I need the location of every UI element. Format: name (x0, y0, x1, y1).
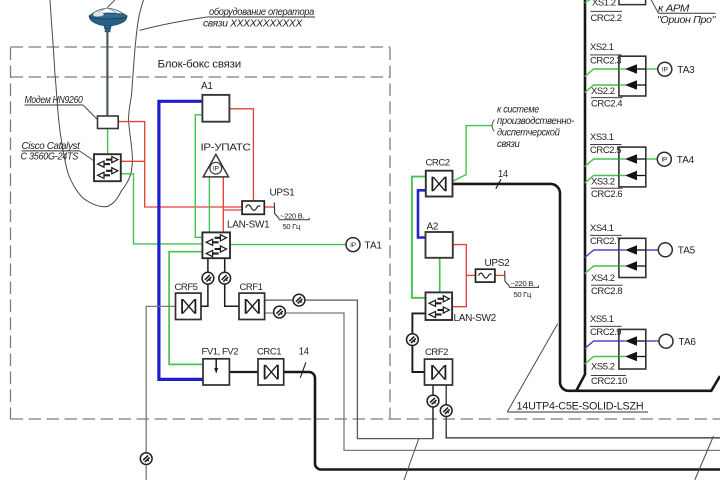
svg-text:LAN-SW2: LAN-SW2 (454, 313, 497, 324)
svg-text:IP: IP (662, 66, 669, 73)
wire black CRF2 bottom right (446, 385, 720, 438)
connector box XS2 (619, 56, 646, 96)
label CRC2.8 (591, 284, 623, 286)
wire gray CRF1 lower output (265, 313, 720, 450)
switch LAN-SW1 (202, 232, 230, 258)
wire XS2.2 breakout (585, 85, 625, 93)
svg-text:UPS1: UPS1 (270, 187, 296, 198)
wire to ТА6 (646, 340, 659, 342)
joint on CRF2 left wire (427, 395, 439, 407)
wire green cisco to LAN-SW1 (121, 174, 203, 244)
wire red A1 to UPS1 top (229, 109, 253, 201)
pin stub lower (637, 356, 646, 358)
wire green IP-PBX to LAN-SW1 (208, 177, 210, 233)
node ТА4 circle (657, 152, 671, 166)
pin stub upper (637, 68, 646, 70)
triangle contact upper (625, 336, 637, 346)
svg-text:XS5.2: XS5.2 (591, 362, 615, 373)
svg-text:XS4.2: XS4.2 (591, 273, 615, 284)
svg-text:XS2.2: XS2.2 (591, 86, 615, 97)
svg-text:CRF1: CRF1 (240, 282, 263, 293)
box CRC2 (426, 171, 453, 197)
leader to operator label (140, 17, 209, 31)
wire XS4.1 breakout (585, 250, 625, 258)
wire XS3.2 breakout (585, 176, 625, 184)
antenna mast (106, 29, 108, 116)
svg-text:CRC2.10: CRC2.10 (591, 376, 627, 387)
cable 14 CRC1 thick run (284, 372, 720, 470)
connector XS1.2 partial box (619, 0, 646, 5)
pin stub upper (637, 158, 646, 160)
block-box right dashed line (389, 48, 391, 420)
wire XS5.1 breakout (585, 341, 625, 349)
wire to ТА3 (646, 68, 658, 70)
svg-text:A2: A2 (427, 222, 439, 233)
svg-text:ТА6: ТА6 (679, 337, 697, 348)
svg-text:ТА5: ТА5 (678, 246, 696, 257)
node ТА3 circle (658, 62, 672, 76)
power drop symbol at UPS2 (505, 271, 510, 287)
joint on LAN-SW2 wire (407, 334, 419, 346)
triangle contact lower (625, 80, 637, 90)
label CRC2.3 (590, 54, 622, 56)
cable bundle vertical line (576, 0, 585, 391)
svg-text:XS4.1: XS4.1 (590, 223, 614, 234)
leader diagonal bottom right (695, 436, 714, 480)
svg-text:CRC2.2: CRC2.2 (591, 13, 622, 24)
label CRC2.6 (591, 187, 623, 189)
bottom dashed line (11, 418, 720, 420)
slash on CRC2 cable (496, 179, 501, 189)
operator equipment balloon outline (50, 0, 144, 207)
box A1 (202, 95, 229, 122)
triangle contact lower (625, 352, 637, 362)
svg-text:CRF5: CRF5 (175, 282, 198, 293)
wire red UPS1 output (264, 206, 274, 208)
triangle contact upper (625, 64, 637, 74)
wire XS2.1 breakout (585, 69, 625, 77)
connector box XS5 (619, 329, 646, 369)
wire to ТА5 (646, 249, 659, 251)
leader to cable label 14UTP4 (507, 324, 557, 412)
leader diagonal under CRF runs (404, 439, 419, 480)
switch LAN-SW2 (426, 292, 453, 320)
wire black LAN-SW1 to CRF5 (201, 258, 208, 306)
svg-text:связи: связи (497, 139, 520, 150)
svg-text:XS5.1: XS5.1 (590, 314, 614, 325)
block-box top dashed line (11, 76, 391, 78)
svg-text:к АРМ: к АРМ (658, 3, 690, 14)
svg-text:связи ХХХХХХХХХХХ: связи ХХХХХХХХХХХ (203, 19, 303, 30)
wire green CRC2 to LAN-SW2 (412, 177, 426, 298)
wire green A1 to LAN-SW1 (195, 115, 202, 238)
label CRC2.4 (591, 97, 623, 99)
wire green CRC2 to dispatcher system (453, 126, 493, 182)
svg-text:CRC2.8: CRC2.8 (591, 286, 622, 297)
site boundary top dashed line (11, 46, 391, 48)
cable 14 CRC2 thick run (453, 184, 720, 391)
svg-text:к системе: к системе (497, 105, 540, 116)
wire black LAN-SW1 to CRF1 (225, 258, 239, 306)
svg-text:XS3.2: XS3.2 (591, 177, 615, 188)
block-box left dashed line (10, 48, 12, 420)
svg-text:ТА1: ТА1 (365, 240, 383, 251)
joint on LAN-SW1 right down wire (219, 272, 231, 284)
wire gray CRF5 to cable entry (146, 306, 175, 480)
wire XS3.1 breakout (585, 159, 625, 167)
joint on CRF5 cable (140, 453, 152, 465)
switch Cisco Catalyst (94, 154, 121, 181)
label к системе производственно-диспетчерской связи (497, 105, 575, 151)
wire green LAN-SW1 to FV1 (169, 252, 203, 365)
svg-text:XS1.2: XS1.2 (592, 0, 616, 9)
filter CRF2 (425, 359, 453, 385)
triangle contact lower (625, 171, 637, 181)
wire XS4.2 breakout (585, 266, 625, 274)
svg-text:CRC2.4: CRC2.4 (591, 98, 622, 109)
joint on CRF2 right wire (440, 405, 452, 417)
power drop symbol at UPS1 (274, 202, 279, 218)
arrester FV1 FV2 box (203, 359, 229, 385)
svg-text:производственно-: производственно- (497, 116, 575, 127)
wire black FV1 to CRC1 (229, 371, 258, 373)
UPS2 box (476, 269, 495, 282)
connector box XS4 (619, 238, 646, 277)
label CRC2.5 (590, 143, 622, 145)
svg-text:"Орион Про": "Орион Про" (657, 15, 716, 26)
modem leader (83, 105, 98, 120)
svg-text:CRC2.5: CRC2.5 (590, 145, 621, 156)
triangle contact lower (625, 261, 637, 271)
label CRC2.10 (591, 374, 626, 376)
op-amp IP-PBX triangle (203, 154, 228, 177)
wire red branch to UPS1 (223, 209, 242, 211)
svg-text:~220 В.: ~220 В. (511, 279, 535, 288)
svg-text:UPS2: UPS2 (485, 258, 511, 269)
triangle contact upper (625, 154, 637, 164)
svg-text:FV1, FV2: FV1, FV2 (202, 346, 239, 357)
svg-text:Блок-бокс связи: Блок-бокс связи (158, 59, 242, 71)
label CRC2.7 (590, 234, 622, 236)
svg-text:CRC2.7: CRC2.7 (590, 236, 621, 247)
filter CRF5 (176, 293, 202, 319)
brace at dispatcher label (492, 120, 494, 132)
wire black CRF2 bottom left (432, 385, 434, 439)
svg-text:ТА3: ТА3 (677, 65, 695, 76)
svg-text:A1: A1 (201, 81, 213, 92)
triangle contact upper (625, 245, 637, 255)
pin stub lower (637, 265, 646, 267)
wire green A2 to LAN-SW2 (439, 258, 441, 293)
wire blue A1 to FV1 (159, 101, 203, 379)
svg-text:С 3560G-24TS: С 3560G-24TS (21, 152, 79, 163)
UPS1 box (242, 201, 264, 214)
wire XS5.2 breakout (585, 357, 625, 365)
wire red modem to UPS1 (118, 122, 242, 207)
wire blue CRC2 to A2 (418, 190, 426, 237)
joint on CRF1 lower output (274, 306, 286, 318)
svg-text:50 Гц: 50 Гц (514, 290, 532, 299)
wire red branch to UPS2 (466, 274, 475, 276)
wire red IP-PBX to LAN-SW1 (222, 177, 224, 233)
wire red UPS2 output (495, 274, 505, 276)
pin stub lower (637, 84, 646, 86)
svg-text:XS3.1: XS3.1 (590, 132, 614, 143)
svg-text:IP-УПАТС: IP-УПАТС (201, 143, 251, 154)
svg-text:IP: IP (350, 242, 357, 249)
wire gray CRF1 upper output (265, 300, 433, 439)
svg-text:14: 14 (299, 347, 309, 358)
connector box XS3 (619, 147, 646, 187)
wire red cisco branch (121, 160, 145, 162)
box A2 (426, 232, 453, 258)
svg-text:ТА4: ТА4 (677, 155, 695, 166)
svg-text:CRF2: CRF2 (425, 347, 448, 358)
label CRC2.2 (591, 11, 623, 23)
boundary dashed lines (11, 47, 720, 419)
svg-text:CRC1: CRC1 (257, 346, 281, 357)
joint on CRF1 upper output (293, 294, 305, 306)
filter CRF1 (239, 293, 265, 319)
svg-text:CRC2.3: CRC2.3 (590, 55, 621, 66)
svg-text:XS2.1: XS2.1 (590, 42, 614, 53)
label CRC2.9 (590, 325, 622, 327)
pin stub upper (637, 249, 646, 251)
svg-text:CRC2.9: CRC2.9 (590, 327, 621, 338)
node ТА5 circle (658, 243, 672, 257)
svg-text:IP: IP (213, 165, 220, 172)
wire green LAN-SW1 to TA1 (230, 244, 346, 246)
wire green modem to cisco (107, 129, 109, 154)
wire to ТА4 (646, 158, 658, 160)
satellite dish antenna (89, 8, 127, 32)
svg-text:диспетчерской: диспетчерской (497, 128, 560, 139)
cisco leader (80, 151, 95, 161)
box CRC1 (258, 359, 284, 385)
joint on LAN-SW1 left down wire (202, 272, 214, 284)
slash on CRC1 cable (300, 362, 306, 377)
wire red A2 to LAN-SW2 (452, 245, 466, 307)
svg-text:CRC2: CRC2 (426, 158, 450, 169)
svg-text:IP: IP (661, 156, 668, 163)
svg-text:14: 14 (498, 169, 508, 180)
svg-text:50 Гц: 50 Гц (283, 222, 301, 231)
pin stub lower (637, 175, 646, 177)
leader к АРМ (651, 0, 658, 13)
leader above satellite dish (107, 0, 115, 8)
node TA1 (346, 238, 382, 252)
svg-text:LAN-SW1: LAN-SW1 (227, 219, 270, 230)
node ТА6 circle (659, 334, 673, 348)
svg-text:14UTP4-C5E-SOLID-LSZH: 14UTP4-C5E-SOLID-LSZH (517, 401, 644, 413)
modem HN9260 box (98, 116, 119, 129)
pin stub upper (637, 340, 646, 342)
svg-text:CRC2.6: CRC2.6 (591, 189, 622, 200)
wire black LAN-SW2 to CRF2 (412, 313, 425, 372)
svg-text:~220 В.: ~220 В. (280, 212, 304, 221)
wire green XS1 remnant (585, 0, 590, 3)
